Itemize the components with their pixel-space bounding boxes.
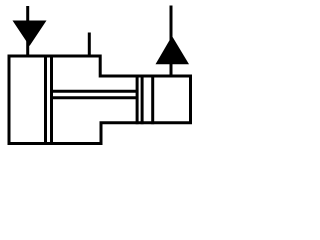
oil outlet stem: [170, 6, 173, 78]
piston rod upper line: [52, 90, 139, 93]
piston line 1 (oil side): [136, 75, 139, 125]
piston line 2 (oil side): [141, 75, 144, 125]
air inlet stem: [26, 6, 29, 57]
oil outlet arrow (filled up triangle): [156, 36, 190, 64]
air inlet arrow (filled down triangle): [13, 21, 47, 47]
piston line 1 (air side): [44, 55, 47, 146]
piston rod lower line: [52, 96, 139, 99]
oil cylinder inner wall: [151, 75, 154, 125]
vent port stub: [88, 33, 91, 58]
piston line 2 (air side): [50, 55, 53, 146]
intensifier body outline: [9, 56, 191, 144]
